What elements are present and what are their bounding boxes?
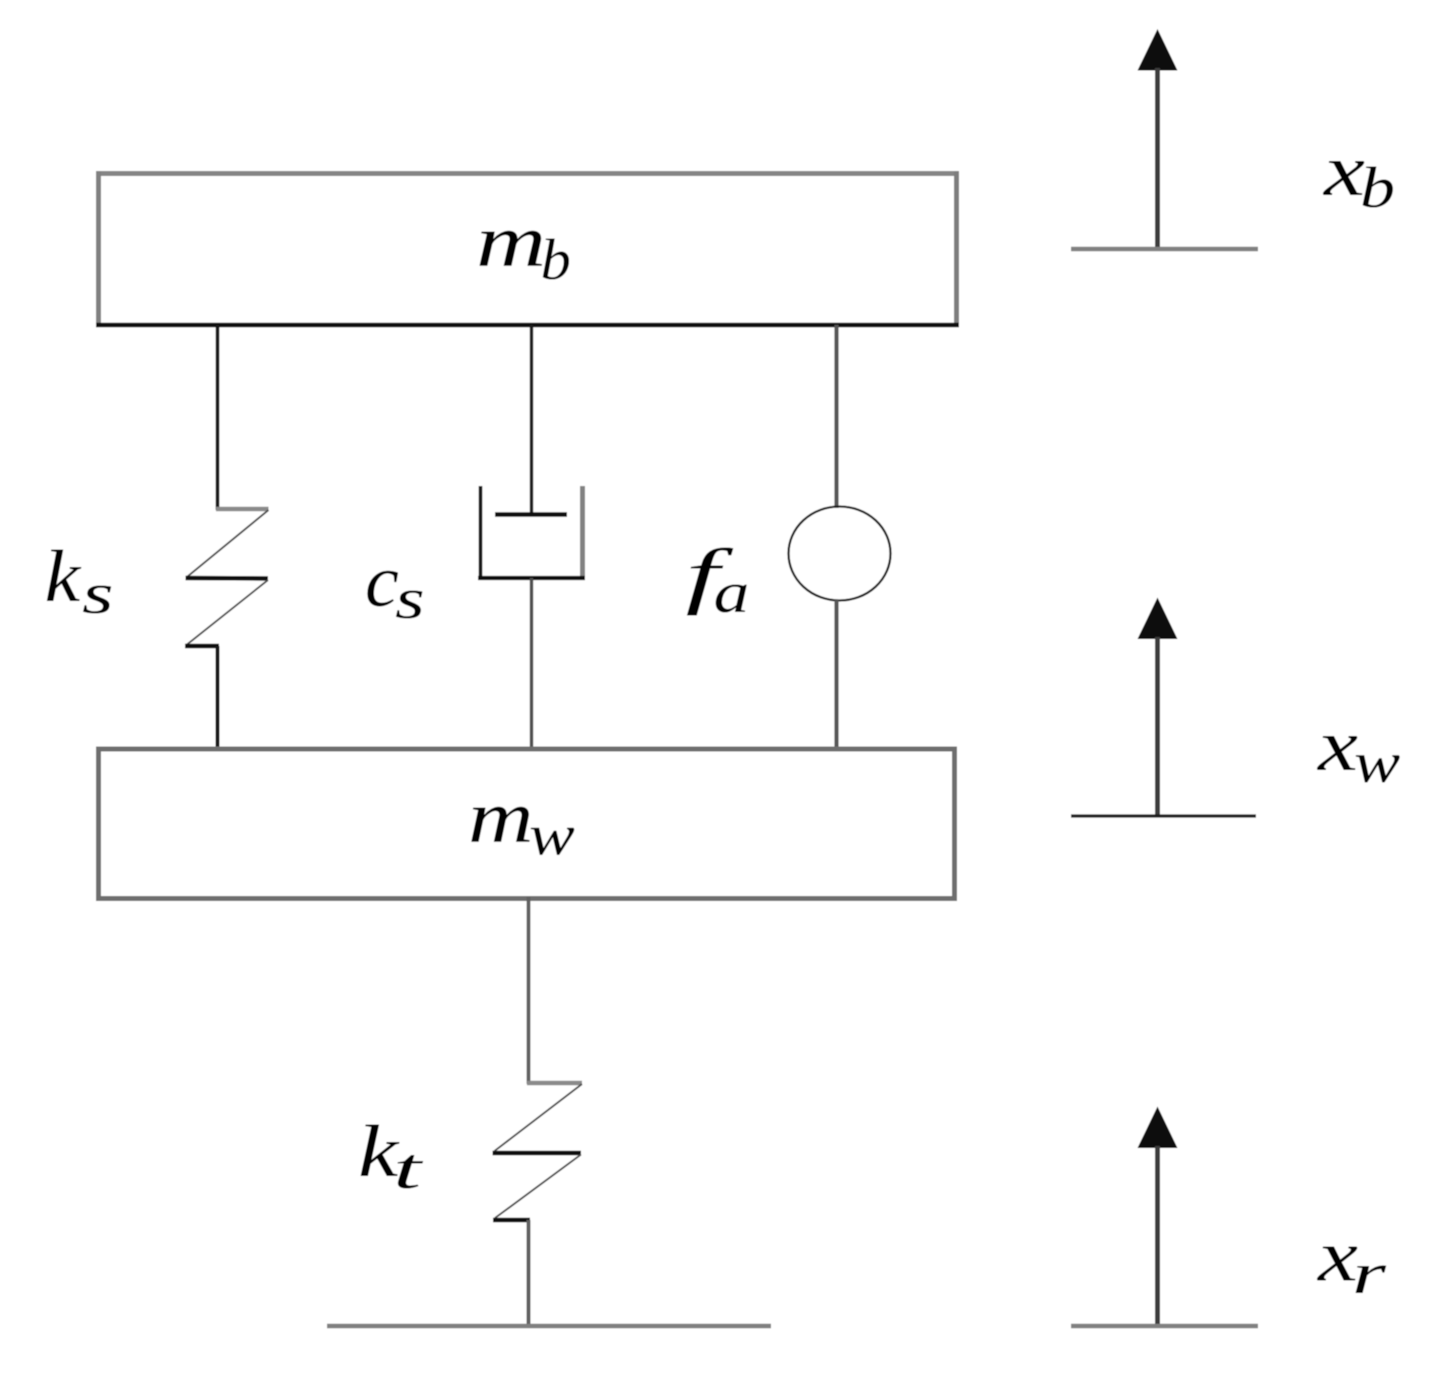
svg-text:b: b: [1360, 155, 1395, 220]
svg-text:a: a: [714, 560, 750, 625]
reference arrow x_r: [1071, 1107, 1258, 1327]
wire from actuator f_a to m_w: [834, 600, 838, 748]
mass m_b body rectangle: [96, 171, 959, 327]
actuator f_a circle: [789, 507, 891, 601]
reference arrow x_b: [1071, 29, 1258, 249]
mass m_w wheel rectangle: [99, 749, 955, 899]
spring k_t: [493, 1083, 583, 1220]
wire from m_b to damper piston: [530, 325, 533, 515]
damper c_s: [478, 486, 585, 578]
svg-text:c: c: [365, 541, 399, 623]
svg-text:w: w: [529, 803, 575, 868]
wire from spring k_t to ground: [527, 1220, 531, 1327]
svg-text:x: x: [1317, 705, 1358, 787]
wire from m_w to spring k_t: [527, 897, 531, 1084]
svg-text:m: m: [468, 777, 534, 859]
svg-text:s: s: [82, 561, 114, 626]
wire from spring k_s to m_w: [216, 646, 220, 748]
wire from m_b to actuator f_a: [834, 325, 838, 508]
svg-text:w: w: [1354, 730, 1401, 795]
svg-text:m: m: [476, 201, 546, 283]
spring k_s: [185, 509, 269, 646]
wire from m_b to spring k_s: [216, 325, 220, 510]
svg-text:x: x: [1323, 130, 1365, 212]
svg-text:s: s: [395, 566, 425, 631]
reference arrow x_w: [1071, 598, 1256, 817]
wire from damper to m_w: [530, 578, 533, 748]
svg-text:b: b: [541, 227, 571, 292]
svg-text:r: r: [1352, 1241, 1387, 1306]
ground road line: [327, 1324, 771, 1329]
svg-text:t: t: [393, 1136, 424, 1201]
svg-text:k: k: [45, 536, 82, 618]
